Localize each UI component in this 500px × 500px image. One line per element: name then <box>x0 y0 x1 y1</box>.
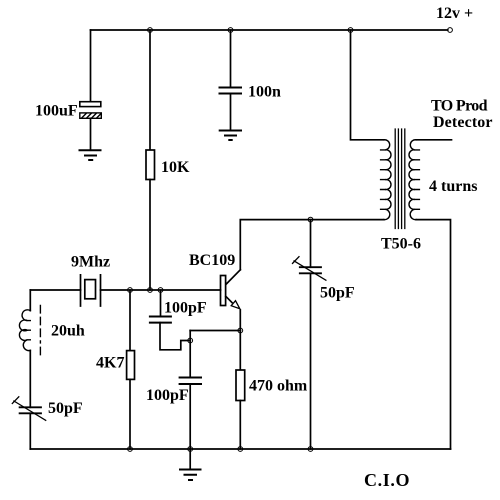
wire secondary bottom to ground rail <box>416 220 450 449</box>
svg-text:Detector: Detector <box>433 114 493 131</box>
svg-text:100pF: 100pF <box>164 300 207 317</box>
wire C2 staircase to emitter node <box>160 323 190 350</box>
capacitor 100uF top plate <box>80 102 101 107</box>
transformer T1 primary winding <box>384 140 391 220</box>
trimmer arrow right <box>293 257 326 281</box>
wire primary bottom to collector <box>240 220 384 270</box>
capacitor C3 100pF lower <box>180 378 201 385</box>
wire 10K to base node <box>149 180 151 291</box>
svg-text:C.I.O: C.I.O <box>364 470 410 490</box>
transistor Q1 emitter arrow <box>231 301 240 309</box>
wire inductor to trimmer <box>29 350 31 407</box>
capacitor trimmer 50pF left <box>20 407 41 413</box>
inductor core dashed line <box>39 306 41 356</box>
svg-text:50pF: 50pF <box>48 400 83 417</box>
svg-text:100pF: 100pF <box>146 387 189 404</box>
wire 4K7 top <box>129 290 131 351</box>
node junction primary/50pF trimmer <box>308 217 313 222</box>
wire top supply rail <box>91 29 448 31</box>
wire left tank top <box>29 290 31 311</box>
wire bottom ground rail <box>30 448 450 450</box>
svg-text:100uF: 100uF <box>35 103 78 120</box>
svg-text:9Mhz: 9Mhz <box>71 254 110 271</box>
svg-text:4K7: 4K7 <box>96 355 124 372</box>
wire junction to 470 <box>239 331 241 371</box>
capacitor 100n <box>220 88 242 94</box>
capacitor C2 100pF upper <box>150 317 171 323</box>
capacitor 100uF bottom plate (hatched) <box>80 113 102 118</box>
crystal X1 9Mhz plates <box>81 275 101 306</box>
wire base to C2 100pF <box>160 290 162 317</box>
svg-text:10K: 10K <box>161 159 190 176</box>
ground below 100uF <box>80 150 101 160</box>
wire 470 to rail <box>239 401 241 450</box>
wire rail to ground stub <box>189 449 191 470</box>
wire emitter node horizontal <box>190 330 240 332</box>
node junction emitter/470 <box>238 328 243 333</box>
wire emitter node vertical <box>189 331 191 341</box>
svg-text:4 turns: 4 turns <box>429 178 477 195</box>
resistor 4K7 <box>127 351 135 380</box>
wire C3 to rail <box>189 384 191 449</box>
wire rail to transformer primary top <box>351 30 384 140</box>
node junction rail/transformer <box>348 28 353 33</box>
resistor 470 ohm <box>236 370 245 401</box>
transistor Q1 emitter lead <box>226 296 232 302</box>
wire from rail to C1 <box>90 30 92 102</box>
wire trimmer top <box>310 220 312 268</box>
trimmer arrow left <box>12 397 45 421</box>
node junction rail/470 <box>238 447 243 452</box>
node junction rail/100n <box>228 28 233 33</box>
transistor Q1 BC109 collector lead <box>226 270 241 285</box>
node junction base/10K <box>148 288 153 293</box>
node junction rail/10K <box>148 28 153 33</box>
transistor Q1 base bar <box>221 276 226 306</box>
node junction emitter feedback <box>188 338 193 343</box>
wire C1 to ground <box>90 118 92 150</box>
wire trimmer bottom to rail <box>310 273 312 449</box>
svg-text:BC109: BC109 <box>189 252 235 269</box>
node 12v terminal <box>448 28 453 33</box>
wire emitter down <box>239 310 241 331</box>
wire 4K7 bottom <box>129 379 131 449</box>
wire crystal to base <box>101 289 221 291</box>
wire feedback node to C3 <box>189 341 191 378</box>
node junction rail/C3-ground <box>188 447 193 452</box>
svg-text:100n: 100n <box>248 84 281 101</box>
svg-text:12v +: 12v + <box>436 5 473 22</box>
node junction base/4K7 <box>128 288 133 293</box>
wire crystal left segment <box>30 289 80 291</box>
node junction rail/trimmer <box>308 447 313 452</box>
ground below 100n <box>220 131 241 141</box>
svg-text:470 ohm: 470 ohm <box>249 378 308 395</box>
transformer T1 core <box>395 129 405 229</box>
wire rail to C 100n <box>230 30 232 88</box>
capacitor trimmer 50pF right <box>300 267 321 273</box>
node junction base/100pF <box>158 288 163 293</box>
inductor L1 20uh <box>19 310 30 351</box>
node junction rail/4K7 <box>128 447 133 452</box>
wire secondary top to output <box>416 139 451 141</box>
svg-text:50pF: 50pF <box>320 285 355 302</box>
crystal X1 body <box>85 280 96 299</box>
svg-text:20uh: 20uh <box>51 323 85 340</box>
wire rail to R 10K <box>149 30 151 150</box>
resistor 10K <box>146 150 155 180</box>
transformer T1 secondary winding <box>409 140 416 220</box>
svg-text:T50-6: T50-6 <box>381 236 421 253</box>
svg-text:TO Prod: TO Prod <box>431 98 488 115</box>
wire trimmer to bottom rail <box>29 413 31 449</box>
wire 100n to ground <box>230 94 232 131</box>
ground below rail <box>180 470 201 481</box>
